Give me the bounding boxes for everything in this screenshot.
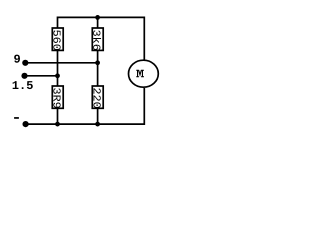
wire middle branch between R2 bottom and R4 top: [97, 50, 99, 86]
wire left branch between R1 bottom and R3 top: [57, 50, 59, 86]
node junction dot bottom rail / R4: [95, 122, 100, 127]
node junction dot top rail / R2: [95, 15, 100, 20]
node terminal dot 9: [22, 60, 28, 66]
wire stub R3 bottom to bottom rail: [57, 108, 59, 124]
motor M1 ellipse body: [129, 60, 159, 87]
node junction dot 1.5 / left branch: [55, 73, 60, 78]
label 3R9 value: [53, 88, 60, 108]
label 3k6 value: [93, 30, 101, 50]
label M serif strokes: [136, 70, 144, 77]
resistor R2 3k6 box: [92, 28, 103, 50]
resistor R3 3R9 box: [52, 86, 63, 108]
wire stub from top rail down to R2 top: [97, 17, 99, 28]
wire stub R4 bottom to bottom rail: [97, 108, 99, 124]
resistor R4 220 box: [92, 86, 103, 108]
label M middle vee: [139, 70, 142, 75]
label minus: [14, 117, 19, 119]
label 1.5: [13, 81, 33, 89]
wire top rail from R1 top over to motor branch: [58, 17, 145, 60]
wire bottom rail from minus terminal to motor branch: [26, 88, 145, 124]
label 220 value: [93, 88, 100, 108]
node terminal dot 1.5: [21, 73, 27, 79]
wire 9V rail from terminal to middle branch: [25, 62, 97, 64]
label 9: [14, 55, 20, 63]
node terminal dot minus: [23, 121, 29, 127]
label 560 value: [53, 30, 60, 50]
wire 1.5V lead from terminal to left branch: [25, 75, 58, 77]
resistor R1 560 box: [52, 28, 63, 50]
node junction dot bottom rail / R3: [55, 122, 60, 127]
node junction dot 9 rail / middle branch: [95, 60, 100, 65]
